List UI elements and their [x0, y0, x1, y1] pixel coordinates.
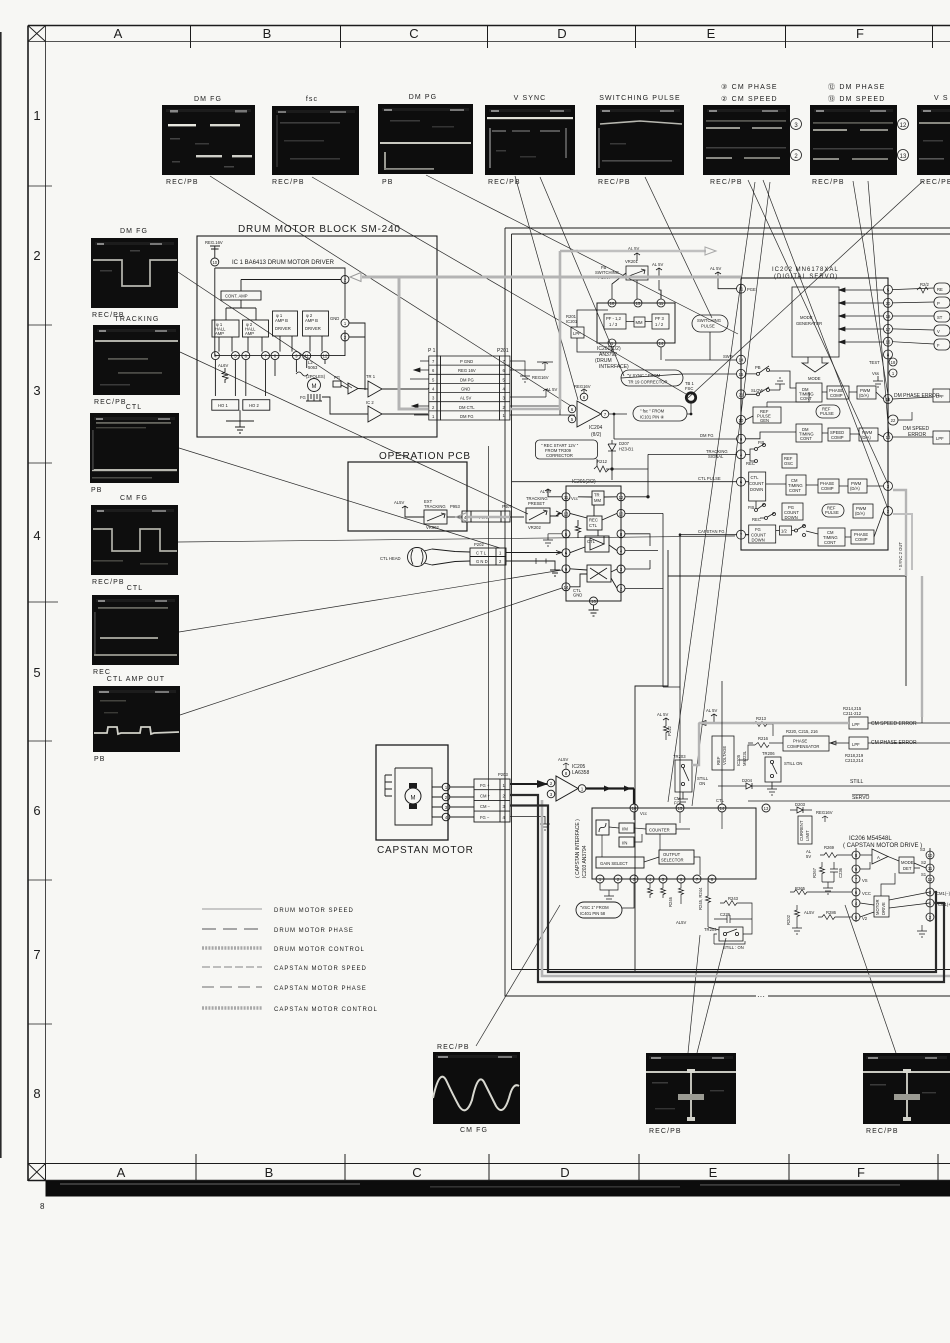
svg-text:M5223L: M5223L: [742, 750, 747, 766]
cm timing cont box 1: [786, 475, 806, 495]
wires ctl chain: [746, 482, 884, 486]
svg-text:fsc: fsc: [306, 96, 318, 103]
frame inner left vertical: [45, 26, 47, 1182]
svg-text:14: 14: [659, 341, 664, 346]
ground TR206: [767, 782, 777, 795]
IC1 BA6413 drum motor driver box: [215, 268, 345, 356]
wires timing chain 2: [746, 432, 884, 439]
svg-text:COMPENSATOR: COMPENSATOR: [787, 744, 819, 749]
svg-text:DM FG: DM FG: [194, 96, 222, 103]
junction dots IC201 area: [647, 496, 649, 498]
wire ctl pulse net: [512, 481, 737, 483]
svg-text:HO 2: HO 2: [249, 403, 259, 408]
svg-text:PF - 1,2: PF - 1,2: [606, 316, 622, 321]
phase comp box 1: [827, 386, 849, 399]
bottom band lines: [28, 1163, 950, 1165]
scope photo CM PHASE / CM SPEED (top row): [703, 83, 802, 186]
svg-text:"VSC 1" FROM: "VSC 1" FROM: [580, 905, 609, 910]
svg-text:V S: V S: [934, 95, 949, 102]
wire leader DM PG photo: [426, 175, 738, 334]
IC202 left pin 21: [737, 390, 746, 399]
svg-text:PB: PB: [382, 179, 394, 186]
bus capstan drive dark CM-: [510, 806, 936, 973]
operation pcb phantom line: [488, 446, 490, 800]
wire pin22 stub: [898, 412, 912, 420]
svg-text:COMP: COMP: [830, 393, 843, 398]
arrow into P1 row3: [412, 404, 418, 408]
corner X box top: [28, 26, 46, 42]
svg-text:SWITCHING: SWITCHING: [697, 318, 721, 323]
switch SLOW at pin21: [757, 393, 760, 396]
pwm d/a box 2: [859, 428, 878, 441]
svg-text:OUTPUT: OUTPUT: [663, 852, 681, 857]
svg-text:PG: PG: [334, 375, 340, 380]
svg-text:IC204: IC204: [589, 425, 603, 431]
svg-text:MODE: MODE: [808, 376, 821, 381]
svg-text:10: 10: [928, 853, 933, 858]
drum motor block outer box: [197, 236, 437, 437]
wire P202 GND: [506, 561, 560, 576]
hall amp 2 box: [243, 320, 269, 337]
scope photo DM PG (top row): [378, 94, 473, 186]
callout VSC 1 FROM IC401 PIN 58: [576, 902, 622, 918]
legend line capstan motor phase: [202, 986, 262, 988]
svg-text:16: 16: [591, 599, 596, 604]
wire leader fsc photo to TB1: [312, 177, 686, 394]
right pins 12,10,8,4,3,2: [617, 493, 625, 501]
svg-text:SWITCHING PULSE: SWITCHING PULSE: [599, 95, 680, 102]
svg-text:A: A: [114, 26, 123, 41]
scope photo REC/PB cross (bottom right): [863, 1053, 950, 1135]
wire cont amp feed: [226, 280, 341, 321]
svg-text:REC/PB: REC/PB: [166, 179, 199, 186]
integrator box: [596, 820, 609, 835]
bus drum motor control gray arrow into pin 2: [362, 276, 741, 279]
svg-text:SERVO: SERVO: [852, 795, 870, 801]
bus sync2 out vertical: [893, 490, 906, 576]
ctl count down box: [749, 472, 766, 501]
svg-text:LPF: LPF: [852, 722, 860, 727]
svg-text:13: 13: [900, 154, 907, 160]
svg-text:11: 11: [305, 354, 310, 359]
ref voltage box IC205 M5223L: [712, 736, 734, 770]
svg-text:OSC: OSC: [784, 461, 793, 466]
oval SWITCHING PULSE: [692, 315, 728, 332]
wire leader DM SPEED photo to pin 13: [868, 181, 889, 436]
svg-text:R220, C215, 216: R220, C215, 216: [786, 729, 818, 734]
svg-text:12: 12: [619, 495, 624, 500]
svg-text:B: B: [263, 26, 272, 41]
svg-text:R243: R243: [728, 896, 739, 901]
wire capstan fg to pin 7: [680, 535, 737, 690]
ground TR203: [678, 792, 688, 805]
wire P203 FG+ to IC205: [510, 782, 547, 787]
motor drive box: [874, 896, 889, 917]
svg-text:PB: PB: [755, 365, 761, 370]
svg-text:1: 1: [33, 108, 40, 123]
gain select box: [596, 857, 644, 868]
svg-text:STILL ON: STILL ON: [784, 761, 802, 766]
IC202 left pin 9: [737, 434, 746, 443]
svg-text:CTL PULSE: CTL PULSE: [698, 476, 721, 481]
svg-text:AL 5V: AL 5V: [657, 712, 668, 717]
counter box: [646, 824, 676, 834]
FG comb symbol: [306, 394, 322, 401]
svg-text:REG16V: REG16V: [574, 384, 591, 389]
svg-text:DM FG: DM FG: [120, 228, 148, 235]
svg-text:D: D: [560, 1165, 569, 1180]
svg-text:REF: REF: [716, 756, 721, 765]
IC202 left pin 10: [737, 415, 746, 424]
pwm d/a box 1: [857, 386, 876, 399]
svg-text:GND: GND: [330, 316, 339, 321]
scope photo CM FG (left col): [91, 495, 178, 586]
svg-text:COUNT: COUNT: [749, 481, 764, 486]
svg-text:IC202 MN6178XAL: IC202 MN6178XAL: [772, 267, 839, 273]
svg-text:COMP: COMP: [831, 435, 844, 440]
TR MM box: [592, 491, 604, 505]
svg-text:AL5V: AL5V: [676, 920, 686, 925]
svg-text:CM −: CM −: [480, 804, 491, 809]
scope photo DM PHASE / DM SPEED (top row): [810, 83, 909, 186]
wire DM CTL: [510, 406, 560, 415]
pin 14: [657, 339, 665, 347]
ground near slow: [775, 378, 785, 390]
pin 10 IC1: [211, 258, 219, 266]
svg-text:CM SPEED ERROR: CM SPEED ERROR: [871, 721, 917, 727]
ground right: [917, 925, 927, 937]
svg-text:AMP: AMP: [245, 331, 254, 336]
svg-text:REG.16V: REG.16V: [205, 240, 223, 245]
resistors below pins 4,5,6: [648, 883, 653, 898]
bus cm speed error gray: [921, 576, 923, 717]
svg-text:RE: RE: [937, 287, 943, 292]
wire pin2 down and right: [625, 513, 663, 588]
svg-text:MODE: MODE: [901, 860, 914, 865]
svg-text:FG: FG: [300, 395, 306, 400]
wire capstan fg net: [663, 588, 680, 687]
switch P.B / REC at pin4: [755, 448, 758, 451]
wire P407 to VR202: [510, 516, 524, 518]
CTL head symbol: [408, 548, 427, 567]
zener D207 HZ3-B1: [608, 440, 616, 456]
IC1 bottom pins 4,5,6,7,8,9,11,12: [211, 352, 219, 360]
ref pulse oval 1: [816, 405, 840, 418]
svg-text:GAIN SELECT: GAIN SELECT: [600, 861, 628, 866]
wire pin12 to LPF: [893, 397, 934, 399]
svg-text:D: D: [557, 26, 566, 41]
svg-text:DRUM MOTOR PHASE: DRUM MOTOR PHASE: [274, 928, 354, 934]
amp B driver 1 box: [273, 311, 298, 336]
wire leader CM SPEED photo to pin 2: [763, 180, 888, 509]
svg-text:P: P: [937, 301, 940, 306]
svg-text:DRUM MOTOR SPEED: DRUM MOTOR SPEED: [274, 908, 354, 914]
svg-text:AL 5V: AL 5V: [460, 396, 471, 401]
svg-text:CM +: CM +: [480, 794, 491, 799]
HO1 box: [212, 400, 239, 411]
amp B driver 2 box: [303, 311, 329, 336]
motor winding bracket: [395, 768, 432, 825]
scope photo REC/PB cross (bottom center): [646, 1053, 736, 1135]
IC202 right pin 12: [884, 395, 893, 404]
svg-text:GENERATOR: GENERATOR: [796, 321, 822, 326]
svg-text:LA6358: LA6358: [572, 770, 589, 776]
svg-text:(DIGITAL SERVO): (DIGITAL SERVO): [774, 274, 838, 280]
svg-text:A: A: [877, 855, 880, 860]
svg-text:AL6V: AL6V: [218, 363, 228, 368]
svg-text:⑫ DM PHASE: ⑫ DM PHASE: [828, 83, 886, 91]
wires ctl amp: [570, 536, 617, 553]
svg-text:DET: DET: [903, 866, 912, 871]
legend line capstan motor speed: [202, 966, 262, 968]
svg-text:VS: VS: [862, 878, 868, 883]
svg-text:CAPSTAN MOTOR: CAPSTAN MOTOR: [377, 845, 474, 856]
svg-text:AL 5V: AL 5V: [706, 708, 717, 713]
wire leader left DM FG photo: [178, 272, 352, 388]
svg-text:TRACKING: TRACKING: [115, 316, 160, 323]
svg-text:2: 2: [33, 248, 40, 263]
LPF pill right 1: [933, 389, 950, 402]
svg-text:STILL : ON: STILL : ON: [723, 945, 744, 950]
column letters top: [114, 26, 864, 41]
svg-text:FSC: FSC: [685, 386, 693, 391]
legend line drum motor phase: [202, 928, 262, 930]
svg-text:P.B: P.B: [758, 440, 764, 445]
phase comp box cm: [818, 479, 839, 493]
HO2 box: [243, 400, 270, 411]
svg-text:CONT: CONT: [789, 488, 801, 493]
svg-text:E: E: [707, 26, 716, 41]
IC202 lower extension box: [668, 550, 906, 576]
svg-text:LIMIT: LIMIT: [805, 830, 810, 841]
svg-text:REC: REC: [746, 461, 755, 466]
pwm d/a box 4: [853, 504, 873, 518]
wires motor to pins: [432, 780, 442, 817]
svg-text:GEN: GEN: [760, 418, 769, 423]
pin 1: [608, 339, 616, 347]
svg-text:1/2: 1/2: [781, 529, 787, 534]
svg-text:10: 10: [212, 260, 217, 265]
svg-text:PULSE: PULSE: [820, 411, 834, 416]
bus dm ctl from P201: [510, 251, 578, 409]
IC202 right pin 2: [884, 507, 893, 516]
scope photo SWITCHING PULSE (top row): [596, 95, 684, 186]
pin 18: [608, 299, 616, 307]
wires hall amps to pins: [219, 336, 322, 352]
wire leader DM FG photo to IC204: [210, 176, 571, 406]
wire IC202 pin15 PB: [621, 374, 737, 378]
svg-text:DM FG: DM FG: [460, 414, 474, 419]
svg-text:DRIVER: DRIVER: [275, 326, 291, 331]
svg-text:SWP: SWP: [723, 354, 733, 359]
wire pin12 loop to R212: [612, 469, 648, 497]
wire ref pulse gen up: [767, 392, 809, 407]
speed comp box: [828, 428, 850, 441]
svg-text:REC: REC: [752, 517, 761, 522]
svg-text:C236: C236: [838, 867, 843, 878]
svg-text:REC/PB: REC/PB: [437, 1044, 470, 1051]
wire leader bottom center photo b: [697, 938, 726, 1053]
svg-text:⑬ DM SPEED: ⑬ DM SPEED: [828, 95, 886, 103]
svg-text:M: M: [312, 384, 317, 390]
motor pins 1-4: [442, 783, 450, 791]
svg-text:PULSE: PULSE: [825, 510, 839, 515]
svg-text:F: F: [856, 26, 864, 41]
wire pin10 to ref pulse gen: [746, 416, 754, 420]
svg-text:MODE: MODE: [800, 315, 813, 320]
svg-text:R216: R216: [758, 736, 769, 741]
bottom pins 1-8: [596, 875, 604, 883]
svg-text:REC/PB: REC/PB: [710, 179, 743, 186]
svg-text:REG16V: REG16V: [816, 810, 833, 815]
svg-text:SELECTOR: SELECTOR: [661, 858, 684, 863]
svg-text:AL 5V: AL 5V: [652, 262, 663, 267]
wires TR204 area: [708, 880, 752, 934]
svg-text:5: 5: [33, 665, 40, 680]
scope photo DM FG (top row): [162, 96, 255, 186]
svg-text:13: 13: [886, 435, 891, 440]
regulator 16V symbol: [210, 246, 220, 258]
svg-text:PGE: PGE: [747, 287, 756, 292]
svg-text:DRUM MOTOR BLOCK SM-240: DRUM MOTOR BLOCK SM-240: [238, 224, 401, 235]
bus capstan drive dark CM+: [510, 795, 944, 982]
svg-text:CTL AMP OUT: CTL AMP OUT: [107, 676, 165, 683]
svg-text:CTL: CTL: [716, 798, 725, 803]
svg-text:CONT. AMP: CONT. AMP: [225, 294, 248, 299]
wire leader left CM FG photo: [178, 536, 735, 542]
connector P1 pin column: [429, 356, 441, 420]
svg-text:AL 5V: AL 5V: [546, 387, 557, 392]
legend line drum motor control: [202, 946, 262, 949]
svg-text:DRUM MOTOR CONTROL: DRUM MOTOR CONTROL: [274, 947, 365, 953]
svg-text:REC/PB: REC/PB: [866, 1128, 899, 1135]
wire leader CTL photo to P202: [179, 448, 500, 548]
svg-text:R213: R213: [756, 716, 767, 721]
svg-text:CORRECTOR: CORRECTOR: [546, 453, 573, 458]
svg-text:REC: REC: [589, 518, 598, 523]
wires REC CTL: [570, 505, 617, 536]
svg-text:FG: FG: [755, 527, 761, 532]
svg-text:18: 18: [610, 301, 615, 306]
svg-text:20: 20: [886, 301, 891, 306]
svg-text:7: 7: [33, 947, 40, 962]
scope photo CTL (left col, REC): [92, 585, 179, 676]
svg-text:REC/PB: REC/PB: [920, 179, 950, 186]
svg-text:REC/PB: REC/PB: [649, 1128, 682, 1135]
current limit box: [798, 816, 812, 844]
svg-text:PF 3: PF 3: [655, 316, 665, 321]
svg-text:12: 12: [323, 354, 328, 359]
svg-text:CAPSTAN MOTOR CONTROL: CAPSTAN MOTOR CONTROL: [274, 1007, 378, 1013]
svg-text:I/N: I/N: [622, 841, 627, 846]
svg-text:IC 2: IC 2: [366, 400, 374, 405]
svg-text:R202: R202: [786, 914, 791, 925]
svg-text:Vcc: Vcc: [571, 496, 578, 501]
svg-text:OPERATION PCB: OPERATION PCB: [379, 451, 471, 462]
IC201(2/2) box: [566, 486, 621, 601]
stator bars: [385, 775, 392, 796]
DM timing cont box 2: [796, 424, 822, 442]
svg-text:1 / 2: 1 / 2: [655, 322, 664, 327]
connector P203: [474, 772, 550, 830]
switch PB at pin15: [757, 372, 760, 375]
wire pin14 down from IC201(1/2): [660, 347, 662, 360]
IC202 box: [741, 278, 888, 550]
svg-text:AL5V: AL5V: [394, 500, 404, 505]
IC202 left pin 6: [737, 477, 746, 486]
IC202 right pin 3: [884, 482, 893, 491]
bus gray top arrow right: [576, 250, 706, 253]
IC206 left pin rail: [855, 848, 857, 922]
bottom column ticks: [195, 1154, 197, 1181]
wires timing chain 1: [822, 392, 884, 399]
cont amp box: [221, 291, 261, 300]
svg-text:CTL: CTL: [589, 523, 598, 528]
wires fg chain: [746, 511, 884, 537]
wires inside IC201(1/2): [626, 321, 652, 323]
svg-text:IC401 PIN 58: IC401 PIN 58: [580, 911, 606, 916]
IC201(1/2) box: [597, 303, 675, 343]
svg-text:8: 8: [33, 1086, 40, 1101]
ground FG-: [510, 817, 550, 831]
svg-text:DM CTL: DM CTL: [459, 405, 475, 410]
svg-text:REG 16V: REG 16V: [458, 368, 476, 373]
svg-text:V: V: [937, 329, 940, 334]
svg-text:R246: R246: [668, 896, 673, 907]
svg-text:P242: P242: [667, 726, 672, 736]
DM timing cont box 1: [796, 383, 822, 402]
svg-text:P202: P202: [474, 542, 484, 547]
svg-text:15: 15: [678, 806, 683, 811]
svg-text:GND: GND: [461, 387, 470, 392]
svg-text:16: 16: [632, 806, 637, 811]
svg-text:21: 21: [739, 392, 744, 397]
scope photo V SYNC (top row): [485, 95, 575, 186]
svg-text:CAPSTAN FG: CAPSTAN FG: [698, 529, 724, 534]
GND pin 2: [341, 333, 349, 341]
svg-text:V SYNC: V SYNC: [514, 95, 547, 102]
svg-text:TEST: TEST: [869, 360, 880, 365]
svg-text:(θ/2): (θ/2): [591, 432, 602, 438]
legend line capstan motor control: [202, 1006, 262, 1009]
LPF pill right 2: [933, 431, 950, 444]
wire leader TRACKING photo to VR202: [180, 352, 528, 514]
svg-text:DM PG: DM PG: [409, 94, 437, 101]
amp TR1: [348, 383, 358, 394]
svg-text:C: C: [409, 26, 418, 41]
svg-text:P GND: P GND: [460, 359, 473, 364]
IC202 left pin 7: [737, 530, 746, 539]
TRK box: [471, 511, 501, 522]
svg-text:TR: TR: [594, 493, 600, 498]
svg-text:C T L: C T L: [476, 551, 487, 556]
svg-text:COUNTER: COUNTER: [649, 828, 670, 833]
svg-text:REC/PB: REC/PB: [272, 179, 305, 186]
top column ticks: [190, 26, 192, 49]
svg-text:PB: PB: [94, 756, 106, 763]
svg-text:STILL: STILL: [850, 779, 864, 785]
left pins 11,13,5,6,9,14: [562, 493, 570, 501]
wire VR902 to P953: [447, 516, 462, 518]
scope photo TRACKING (left col): [93, 316, 180, 406]
svg-text:DM FG: DM FG: [700, 433, 714, 438]
wire REC START to R212 to IC201(2/2): [597, 456, 612, 480]
wire leader SWITCHING PULSE photo to oval: [645, 177, 712, 318]
op-amp IC204: [577, 401, 601, 427]
svg-text:CTL: CTL: [751, 475, 760, 480]
svg-text:V2: V2: [862, 916, 868, 921]
legend line drum motor speed: [202, 908, 262, 910]
